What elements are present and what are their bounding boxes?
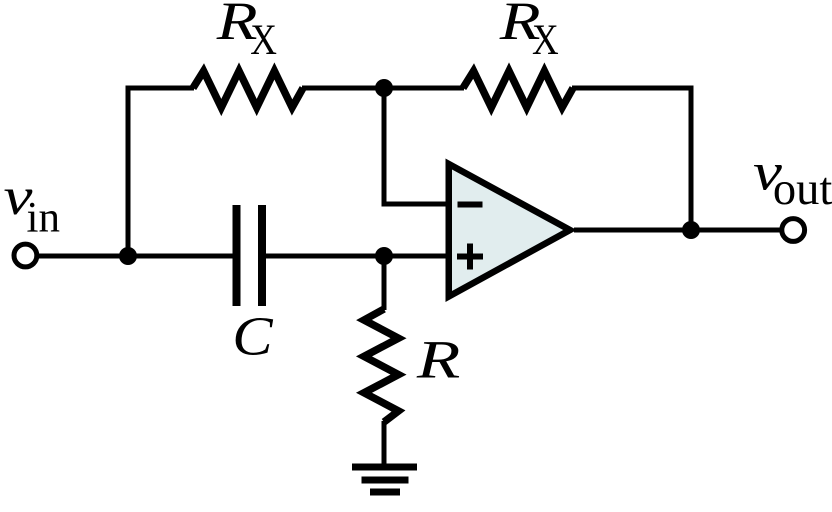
capacitor C plates <box>233 205 267 306</box>
resistor RX1 zigzag <box>193 71 303 108</box>
node B (top junction) <box>375 79 393 97</box>
wire input to node A <box>39 254 129 259</box>
label vout <box>753 142 832 215</box>
node D (output junction) <box>682 221 700 239</box>
wire RX2 to top-right corner and down to node D <box>572 88 691 230</box>
wire node A to capacitor C <box>128 254 233 259</box>
op-amp minus sign (inverting input) <box>458 202 483 208</box>
output terminal vout <box>782 219 805 242</box>
svg-text:R: R <box>416 330 461 389</box>
wire op-amp output to node D <box>574 228 691 233</box>
op-amp plus sign (non-inverting input) <box>457 244 483 270</box>
wire node C down to resistor R <box>382 256 387 310</box>
node C (junction dot at + input) <box>375 247 393 265</box>
op-amp U1 body <box>449 164 570 297</box>
svg-text:in: in <box>27 195 60 242</box>
wire node D to output terminal <box>691 228 780 233</box>
wire RX1 to node B <box>302 86 384 91</box>
svg-text:out: out <box>773 164 832 215</box>
wire top-left to resistor RX1 <box>126 86 195 91</box>
wire node C to op-amp non-inverting input <box>384 254 449 259</box>
wire node B down and right to op-amp inverting input <box>384 88 449 204</box>
input terminal vin <box>14 244 37 267</box>
label RX2 <box>499 0 559 64</box>
wire node B to resistor RX2 <box>384 86 464 91</box>
wire node A up to top rail <box>126 86 131 257</box>
resistor R zigzag (vertical) <box>364 309 399 422</box>
wire resistor R to ground <box>382 421 387 467</box>
resistor RX2 zigzag <box>463 71 573 108</box>
label vin <box>4 167 60 242</box>
label RX1 <box>216 0 277 64</box>
node A (input junction dot) <box>119 247 137 265</box>
wire capacitor to node C <box>265 254 384 259</box>
svg-text:C: C <box>232 305 274 367</box>
ground symbol <box>352 464 417 496</box>
svg-text:X: X <box>250 15 277 63</box>
svg-text:X: X <box>532 15 559 63</box>
